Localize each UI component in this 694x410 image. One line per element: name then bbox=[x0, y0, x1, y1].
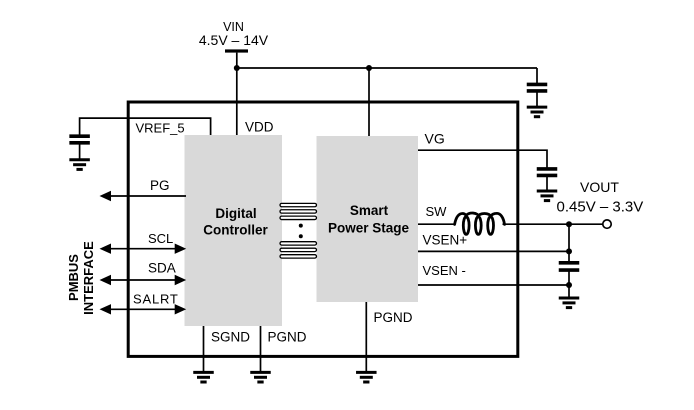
capacitor C2 VREF_5 bypass bbox=[69, 136, 90, 143]
wire SGND drop bbox=[203, 326, 205, 372]
wire SDA bidirectional arrow bbox=[108, 279, 178, 281]
wire VG bbox=[418, 150, 547, 169]
svg-text:VOUT: VOUT bbox=[580, 179, 619, 195]
svg-text:VREF_5: VREF_5 bbox=[136, 121, 185, 136]
svg-text:PGND: PGND bbox=[374, 310, 413, 325]
svg-text:SALRT: SALRT bbox=[133, 292, 179, 307]
wire VIN stem bbox=[236, 53, 238, 68]
digital bus symbol lower bbox=[280, 242, 317, 258]
svg-text:VG: VG bbox=[425, 131, 445, 147]
node VOUT junction bbox=[566, 221, 572, 227]
svg-text:Power Stage: Power Stage bbox=[328, 221, 410, 236]
wire PGND power stage drop bbox=[365, 302, 367, 372]
wire VDD drop to Digital Controller bbox=[236, 68, 238, 135]
wire PGND controller drop bbox=[260, 326, 262, 372]
wire VOUT node to output cap bbox=[568, 224, 570, 263]
wire SALRT bidirectional arrow bbox=[108, 308, 178, 310]
block Digital Controller bbox=[185, 135, 283, 326]
capacitor C3 VG bypass bbox=[537, 169, 558, 176]
svg-text:SDA: SDA bbox=[148, 261, 176, 276]
wire output cap to ground bbox=[568, 270, 570, 298]
svg-text:Controller: Controller bbox=[203, 223, 268, 238]
svg-text:PG: PG bbox=[150, 178, 170, 193]
node junction smart-stage rail bbox=[366, 65, 372, 71]
node VSEN+ junction bbox=[566, 248, 572, 254]
VIN supply terminal bar bbox=[225, 49, 248, 52]
digital bus ellipsis dots bbox=[299, 224, 303, 228]
svg-text:INTERFACE: INTERFACE bbox=[81, 241, 96, 315]
node VSEN- junction bbox=[566, 282, 572, 288]
svg-text:SGND: SGND bbox=[211, 329, 250, 344]
block Smart Power Stage bbox=[317, 136, 419, 302]
wire VSEN- bbox=[418, 284, 569, 286]
wire SCL bidirectional arrow bbox=[108, 248, 178, 250]
svg-text:VDD: VDD bbox=[245, 120, 274, 135]
wire VSEN+ bbox=[418, 250, 569, 252]
wire input cap drop bbox=[536, 68, 538, 84]
ground PGND controller bbox=[250, 372, 271, 382]
capacitor C4 output bbox=[559, 263, 580, 270]
svg-text:SCL: SCL bbox=[148, 231, 173, 246]
wire PG with arrow bbox=[108, 195, 186, 197]
ground PGND power stage bbox=[356, 372, 377, 382]
svg-text:VSEN -: VSEN - bbox=[423, 263, 466, 278]
digital bus symbol upper bbox=[280, 203, 317, 219]
wire VREF_5 bbox=[80, 118, 211, 136]
svg-text:4.5V – 14V: 4.5V – 14V bbox=[199, 32, 269, 48]
wire VIN drop to Smart Power Stage bbox=[368, 68, 370, 136]
svg-text:Digital: Digital bbox=[215, 206, 256, 221]
terminal VOUT open circle bbox=[603, 220, 611, 228]
ground output bbox=[559, 298, 580, 308]
ground for C3 bbox=[537, 191, 558, 201]
svg-text:PMBUS: PMBUS bbox=[66, 254, 81, 301]
svg-text:Smart: Smart bbox=[350, 203, 389, 218]
ground for C1 bbox=[527, 107, 548, 117]
node junction VDD rail bbox=[234, 65, 240, 71]
outer IC boundary box bbox=[128, 102, 518, 356]
inductor L1 bbox=[455, 213, 505, 234]
wire SW lead bbox=[418, 223, 456, 225]
wire SW to VOUT node bbox=[503, 223, 604, 225]
capacitor C1 input bypass bbox=[527, 84, 548, 91]
svg-text:PGND: PGND bbox=[268, 330, 307, 345]
svg-text:0.45V – 3.3V: 0.45V – 3.3V bbox=[557, 199, 644, 216]
ground SGND bbox=[193, 372, 214, 382]
svg-text:SW: SW bbox=[426, 204, 448, 219]
wire VIN top rail bbox=[237, 67, 537, 69]
svg-text:VSEN+: VSEN+ bbox=[423, 233, 468, 248]
ground for C2 bbox=[69, 160, 90, 170]
